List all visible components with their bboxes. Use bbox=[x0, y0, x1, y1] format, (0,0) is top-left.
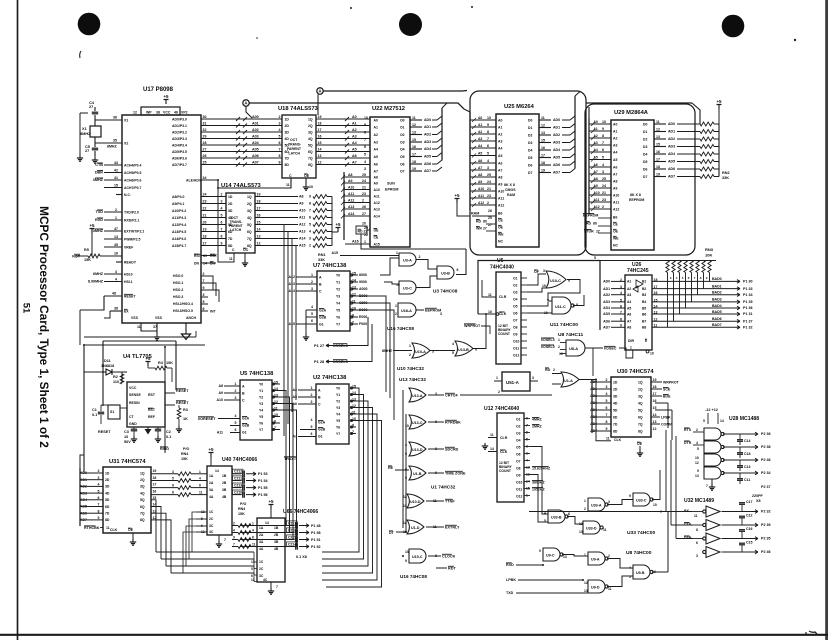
wire U25 address pin bbox=[470, 190, 496, 192]
binder hole dot 1 bbox=[78, 13, 101, 36]
svg-text:A12: A12 bbox=[374, 201, 380, 205]
svg-text:BUE: BUE bbox=[663, 395, 671, 399]
gate U9-B bbox=[633, 565, 650, 579]
svg-text:RST: RST bbox=[148, 393, 156, 397]
svg-text:OE: OE bbox=[128, 528, 134, 532]
svg-text:A06: A06 bbox=[252, 154, 259, 158]
svg-text:U16 74HC08: U16 74HC08 bbox=[400, 574, 427, 579]
IC U29 M2864A bbox=[611, 120, 654, 250]
svg-text:35: 35 bbox=[113, 139, 117, 143]
svg-text:Y6: Y6 bbox=[336, 315, 340, 319]
svg-text:HSI.0: HSI.0 bbox=[124, 272, 133, 276]
svg-text:1: 1 bbox=[311, 386, 313, 390]
svg-text:X1: X1 bbox=[124, 119, 128, 123]
svg-text:U8 74HC11: U8 74HC11 bbox=[558, 332, 583, 338]
wire P2 arrow (U32) bbox=[752, 510, 758, 514]
svg-text:Y5: Y5 bbox=[336, 419, 340, 423]
wire U30 input bbox=[598, 416, 611, 418]
wire RN1 common bbox=[331, 225, 333, 233]
wire U18 output bbox=[316, 157, 370, 159]
svg-text:AD2: AD2 bbox=[603, 293, 610, 297]
wire U7 Y0 feed to U3-A bbox=[358, 258, 399, 275]
svg-text:10: 10 bbox=[364, 116, 368, 120]
svg-text:HSI.3/HSO.5: HSI.3/HSO.5 bbox=[173, 309, 193, 313]
svg-text:A8: A8 bbox=[498, 175, 502, 179]
svg-text:P1 34: P1 34 bbox=[743, 293, 754, 297]
svg-text:5: 5 bbox=[405, 452, 407, 456]
wire U29 address pin bbox=[589, 137, 611, 139]
svg-text:A12: A12 bbox=[613, 207, 619, 211]
svg-text:LATCH: LATCH bbox=[289, 152, 301, 156]
gate U15-C bbox=[409, 549, 426, 563]
svg-text:C14: C14 bbox=[744, 439, 751, 443]
svg-text:DT: DT bbox=[389, 531, 395, 535]
svg-text:P1 52: P1 52 bbox=[311, 545, 321, 549]
IC U18 74ALS573 bbox=[282, 115, 316, 178]
wire U31 low byte drop bbox=[151, 513, 166, 566]
svg-text:4: 4 bbox=[405, 443, 407, 447]
wire A bus row bbox=[201, 245, 226, 247]
wire U17 bottom to U4 rail bbox=[84, 344, 205, 346]
svg-text:42: 42 bbox=[114, 169, 118, 173]
svg-text:VREF: VREF bbox=[124, 245, 133, 249]
svg-text:6: 6 bbox=[311, 432, 313, 436]
svg-text:9: 9 bbox=[233, 536, 235, 540]
wire U2 select input bbox=[298, 389, 316, 391]
svg-text:9: 9 bbox=[309, 195, 311, 199]
svg-text:A00: A00 bbox=[252, 115, 259, 119]
svg-text:B4: B4 bbox=[642, 300, 646, 304]
wire P2 arrow (U28) bbox=[752, 455, 758, 459]
svg-text:6Q: 6Q bbox=[308, 150, 313, 154]
svg-text:TRANS-: TRANS- bbox=[288, 143, 302, 147]
svg-text:2B: 2B bbox=[222, 481, 227, 485]
wire U26 B output to BAD row bbox=[661, 288, 663, 290]
wire A15 to U3-A bbox=[340, 255, 399, 257]
wire A bus row bbox=[201, 231, 226, 233]
net node circle A2 bbox=[317, 88, 323, 94]
svg-text:2D: 2D bbox=[105, 478, 110, 482]
svg-text:AD3: AD3 bbox=[424, 140, 431, 144]
svg-text:O2: O2 bbox=[513, 283, 518, 287]
svg-text:AD3: AD3 bbox=[668, 145, 675, 149]
wire Y0 to U3-A bbox=[380, 258, 399, 275]
svg-text:1C: 1C bbox=[259, 560, 264, 564]
svg-text:1: 1 bbox=[396, 251, 398, 255]
wire U9-A to U9-B bbox=[607, 559, 633, 569]
svg-text:AD4: AD4 bbox=[668, 152, 675, 156]
svg-text:HSI.1: HSI.1 bbox=[124, 280, 133, 284]
svg-text:2A: 2A bbox=[209, 481, 214, 485]
svg-text:6MHZ: 6MHZ bbox=[93, 272, 104, 276]
svg-text:U25 M6264: U25 M6264 bbox=[504, 104, 535, 110]
wire U14 output row bbox=[255, 231, 298, 233]
svg-text:2Q: 2Q bbox=[638, 387, 643, 391]
svg-text:3: 3 bbox=[311, 400, 313, 404]
svg-text:G1: G1 bbox=[318, 434, 323, 438]
svg-text:4D: 4D bbox=[613, 401, 618, 405]
wire U5 Y route down bbox=[240, 404, 293, 540]
wire U22 high address pin bbox=[344, 208, 370, 210]
svg-text:B1: B1 bbox=[642, 280, 646, 284]
svg-text:2: 2 bbox=[115, 208, 117, 212]
svg-text:A10: A10 bbox=[613, 193, 619, 197]
svg-text:O2: O2 bbox=[516, 425, 521, 429]
svg-text:A4: A4 bbox=[498, 146, 502, 150]
svg-text:A11: A11 bbox=[299, 216, 305, 220]
svg-text:4Q: 4Q bbox=[140, 491, 145, 495]
svg-text:11: 11 bbox=[137, 325, 141, 329]
svg-text:A7: A7 bbox=[352, 161, 357, 165]
svg-text:CE: CE bbox=[374, 236, 379, 240]
svg-text:4: 4 bbox=[364, 160, 366, 164]
wire crystal to U17 pins bbox=[95, 119, 122, 121]
wire U26 left pin bbox=[611, 326, 625, 328]
wire A bus row bbox=[201, 203, 226, 205]
svg-text:COMM: COMM bbox=[661, 423, 672, 427]
wire RD box down along U22 bottom bbox=[361, 234, 466, 249]
wire P2 arrow (U28) bbox=[752, 429, 758, 433]
svg-text:1D: 1D bbox=[228, 195, 233, 199]
wire BAD row arrow bbox=[732, 280, 740, 284]
svg-text:Y2: Y2 bbox=[259, 395, 263, 399]
svg-text:B6: B6 bbox=[613, 215, 617, 219]
svg-text:HSO.1: HSO.1 bbox=[173, 281, 183, 285]
inverter U32 receiver 3 bbox=[706, 533, 720, 544]
svg-text:Y7: Y7 bbox=[336, 322, 340, 326]
svg-text:8000: 8000 bbox=[359, 273, 367, 277]
svg-text:P1 32: P1 32 bbox=[743, 326, 753, 330]
svg-text:U10-C: U10-C bbox=[550, 279, 561, 283]
svg-text:3MHZ: 3MHZ bbox=[93, 178, 104, 182]
svg-text:7Q: 7Q bbox=[247, 237, 252, 241]
svg-text:7Q: 7Q bbox=[638, 422, 643, 426]
svg-text:AD1: AD1 bbox=[668, 130, 675, 134]
svg-text:U10 74HC32: U10 74HC32 bbox=[397, 366, 424, 371]
svg-text:5: 5 bbox=[279, 135, 281, 139]
svg-text:A3: A3 bbox=[613, 143, 617, 147]
capacitors C14 C18 C13 C11 bbox=[739, 434, 741, 439]
svg-text:U16-A: U16-A bbox=[401, 309, 412, 313]
wire U14 output row bbox=[255, 217, 298, 219]
gate feed vertical wires bbox=[402, 390, 404, 528]
svg-text:C1: C1 bbox=[92, 408, 97, 412]
svg-text:AD5: AD5 bbox=[553, 156, 560, 160]
svg-text:GND: GND bbox=[129, 422, 137, 426]
wire U22 data to bus ramp bbox=[432, 119, 437, 121]
svg-text:O9: O9 bbox=[513, 332, 518, 336]
svg-text:2: 2 bbox=[606, 378, 608, 382]
svg-text:OE: OE bbox=[374, 229, 380, 233]
svg-text:26: 26 bbox=[488, 209, 492, 213]
wire U22 high address pin bbox=[344, 182, 370, 184]
svg-text:D11: D11 bbox=[104, 359, 111, 363]
wire U25 data bus ramp bbox=[562, 164, 570, 166]
wire U31 Q to RN4 series resistor bbox=[151, 487, 178, 489]
wire mesh row to U66 control bbox=[171, 572, 254, 574]
svg-text:Y3: Y3 bbox=[336, 406, 340, 410]
svg-text:A04: A04 bbox=[252, 141, 260, 145]
wire cap arrow to P1 (U66) bbox=[303, 545, 309, 549]
svg-text:7: 7 bbox=[620, 310, 622, 314]
svg-text:U9-B: U9-B bbox=[636, 571, 645, 575]
svg-text:AD2: AD2 bbox=[424, 133, 431, 137]
svg-text:ACH6/P0.6: ACH6/P0.6 bbox=[124, 178, 141, 182]
U17 HSI input pins bbox=[104, 273, 122, 275]
AD bus vertical rail right of U25 bbox=[574, 96, 576, 169]
svg-text:A12: A12 bbox=[498, 203, 504, 207]
svg-text:13: 13 bbox=[579, 530, 583, 534]
svg-text:2MHZ: 2MHZ bbox=[532, 425, 542, 429]
wire node A1 bend to U17 bus bbox=[246, 106, 252, 118]
svg-text:Y5: Y5 bbox=[336, 308, 340, 312]
wire U5 select input bbox=[224, 392, 240, 394]
svg-text:B6: B6 bbox=[642, 312, 646, 316]
svg-text:2: 2 bbox=[584, 507, 586, 511]
ground below U14 bbox=[244, 260, 246, 263]
wire U22 data to bus ramp bbox=[432, 170, 437, 172]
svg-text:3MHZ: 3MHZ bbox=[93, 229, 104, 233]
svg-text:A1: A1 bbox=[352, 122, 357, 126]
svg-text:A0: A0 bbox=[352, 115, 357, 119]
svg-text:O0: O0 bbox=[400, 118, 405, 122]
resistor RN3 leg bbox=[690, 261, 693, 273]
svg-text:AD7: AD7 bbox=[603, 326, 610, 330]
gate U16-A bbox=[398, 303, 416, 317]
svg-text:16: 16 bbox=[153, 489, 157, 493]
svg-text:A10: A10 bbox=[299, 209, 306, 213]
resistor RN3 leg bbox=[702, 261, 705, 273]
wire U29 data to RN2 bbox=[677, 146, 700, 148]
svg-text:50V: 50V bbox=[124, 440, 131, 444]
svg-text:7D: 7D bbox=[285, 156, 290, 160]
svg-text:X8: X8 bbox=[756, 499, 760, 503]
svg-text:O3: O3 bbox=[400, 140, 405, 144]
wire U18 output bbox=[316, 164, 370, 166]
svg-text:18: 18 bbox=[153, 476, 157, 480]
wire U25 address pin bbox=[470, 204, 496, 206]
wire mesh U31 to U66 row 1 bbox=[151, 500, 232, 552]
wire Y1 to U3-C bbox=[384, 282, 399, 284]
wire A bus row bbox=[201, 217, 226, 219]
svg-text:AD3: AD3 bbox=[603, 300, 610, 304]
gate U13-D bbox=[409, 442, 426, 456]
svg-text:1Q: 1Q bbox=[638, 380, 643, 384]
svg-text:1D: 1D bbox=[285, 117, 290, 121]
svg-text:EEPROM: EEPROM bbox=[629, 198, 644, 202]
svg-text:4: 4 bbox=[452, 342, 454, 346]
svg-text:RTHCBK: RTHCBK bbox=[84, 526, 100, 530]
svg-text:8D: 8D bbox=[285, 163, 290, 167]
U17 EA pin bbox=[110, 310, 122, 312]
svg-text:2A: 2A bbox=[259, 533, 264, 537]
svg-text:G2B: G2B bbox=[242, 423, 250, 427]
svg-text:B: B bbox=[242, 391, 245, 395]
svg-text:3: 3 bbox=[608, 500, 610, 504]
svg-text:2: 2 bbox=[311, 393, 313, 397]
wire U33-A to U33-C bbox=[607, 500, 633, 505]
svg-text:AD5: AD5 bbox=[603, 312, 610, 316]
AD bus rail left of U31 bbox=[79, 468, 81, 526]
svg-text:1: 1 bbox=[252, 522, 254, 526]
svg-text:U12 74HC4040: U12 74HC4040 bbox=[484, 406, 519, 412]
wire RN1 common bbox=[331, 232, 333, 246]
svg-text:9: 9 bbox=[629, 494, 631, 498]
svg-text:D7: D7 bbox=[528, 171, 532, 175]
U28 outputs caps and P2 labels bbox=[723, 433, 752, 435]
svg-text:B6: B6 bbox=[498, 211, 502, 215]
wire P2 arrow (U32) bbox=[752, 537, 758, 541]
wire U18 output bbox=[316, 125, 370, 127]
wire RN3 leg down to BAD row bbox=[697, 273, 699, 295]
svg-text:CLOCK: CLOCK bbox=[442, 555, 456, 559]
svg-text:A9: A9 bbox=[218, 391, 223, 395]
svg-text:1: 1 bbox=[630, 345, 632, 349]
svg-text:RDT: RDT bbox=[448, 567, 456, 571]
svg-text:+5: +5 bbox=[716, 99, 722, 104]
svg-text:OC: OC bbox=[243, 248, 249, 252]
svg-text:A15: A15 bbox=[299, 244, 306, 248]
svg-text:O4: O4 bbox=[400, 147, 405, 151]
svg-text:P1 54: P1 54 bbox=[258, 479, 269, 483]
U1-D output net EXTRLY bbox=[426, 526, 444, 528]
svg-text:10K: 10K bbox=[705, 253, 712, 258]
svg-text:CE: CE bbox=[613, 222, 618, 226]
svg-text:PARENT: PARENT bbox=[287, 147, 302, 151]
svg-text:14: 14 bbox=[215, 469, 219, 473]
wire U31 input bbox=[88, 492, 103, 494]
svg-text:43: 43 bbox=[114, 161, 118, 165]
svg-text:HSO.2: HSO.2 bbox=[173, 288, 183, 292]
svg-text:I/OSEC: I/OSEC bbox=[604, 347, 617, 351]
svg-text:7: 7 bbox=[606, 413, 608, 417]
wire U29 address pin bbox=[589, 187, 611, 189]
svg-text:AD3/P3.3: AD3/P3.3 bbox=[172, 137, 187, 141]
wire BAD row bbox=[652, 288, 732, 290]
svg-text:D5: D5 bbox=[643, 160, 647, 164]
wire RN1 common bbox=[331, 211, 333, 233]
svg-text:P2 38: P2 38 bbox=[761, 445, 771, 449]
resistor RN3 leg bbox=[696, 261, 699, 273]
svg-text:8: 8 bbox=[606, 420, 608, 424]
svg-text:VSS: VSS bbox=[131, 316, 139, 320]
wire U7 select input bbox=[296, 283, 317, 285]
svg-text:16: 16 bbox=[114, 252, 118, 256]
svg-text:U3-B: U3-B bbox=[441, 272, 450, 276]
wire U25 data bus ramp bbox=[562, 157, 570, 159]
wire U31 input bbox=[88, 499, 103, 501]
svg-text:N.C.: N.C. bbox=[124, 193, 131, 197]
svg-text:WE: WE bbox=[613, 236, 619, 240]
wire BAD row arrow bbox=[732, 306, 740, 310]
svg-text:A15/P4.7: A15/P4.7 bbox=[172, 244, 186, 248]
svg-text:B7: B7 bbox=[642, 320, 646, 324]
svg-text:R2: R2 bbox=[113, 375, 118, 379]
svg-text:CLK: CLK bbox=[110, 528, 118, 532]
svg-text:BAD0: BAD0 bbox=[712, 277, 722, 281]
svg-text:2: 2 bbox=[419, 255, 421, 259]
svg-text:4Q: 4Q bbox=[308, 137, 313, 141]
svg-text:O12: O12 bbox=[516, 495, 522, 499]
svg-text:5: 5 bbox=[452, 351, 454, 355]
svg-text:BAD1: BAD1 bbox=[712, 284, 722, 288]
svg-text:HSI.2/HSO.4: HSI.2/HSO.4 bbox=[173, 302, 193, 306]
wire S1 to U4 bbox=[101, 404, 108, 406]
svg-text:3: 3 bbox=[235, 396, 237, 400]
wire U26 B output to BAD row bbox=[661, 280, 663, 282]
svg-text:CLK: CLK bbox=[500, 450, 508, 454]
svg-text:A02: A02 bbox=[252, 128, 259, 132]
svg-text:CTS: CTS bbox=[684, 523, 692, 527]
svg-text:10: 10 bbox=[405, 424, 409, 428]
svg-text:4A: 4A bbox=[209, 495, 214, 499]
svg-text:A13/P4.5: A13/P4.5 bbox=[172, 230, 186, 234]
svg-text:8: 8 bbox=[252, 536, 254, 540]
gate U28 driver 4 bbox=[704, 467, 721, 479]
svg-text:WRPROT: WRPROT bbox=[663, 381, 680, 385]
svg-text:AD0: AD0 bbox=[603, 280, 610, 284]
wire RN1 common bbox=[331, 197, 333, 233]
wire RN1 common bbox=[331, 232, 333, 239]
svg-text:1: 1 bbox=[311, 273, 313, 277]
svg-text:5: 5 bbox=[697, 447, 699, 451]
svg-text:1C: 1C bbox=[209, 510, 214, 514]
wire from top AD bus down right side bbox=[555, 180, 557, 372]
svg-text:1: 1 bbox=[395, 304, 397, 308]
svg-text:Y3: Y3 bbox=[336, 294, 340, 298]
wire U40 control drop bbox=[189, 519, 196, 559]
svg-text:11: 11 bbox=[608, 587, 612, 591]
wire U25 address pin bbox=[470, 133, 496, 135]
svg-text:TXD: TXD bbox=[506, 591, 514, 595]
svg-text:11: 11 bbox=[490, 433, 494, 437]
wire U40 control drop bbox=[186, 526, 196, 566]
svg-text:Y4: Y4 bbox=[259, 408, 263, 412]
svg-text:220PF: 220PF bbox=[752, 494, 764, 498]
svg-text:8: 8 bbox=[620, 318, 622, 322]
inverter U32 receiver 1 bbox=[706, 506, 720, 517]
svg-text:A10: A10 bbox=[216, 398, 223, 402]
svg-text:11: 11 bbox=[199, 491, 203, 495]
svg-text:WP: WP bbox=[146, 111, 152, 115]
resistor network RN2 33K bbox=[700, 122, 714, 126]
svg-text:1Q: 1Q bbox=[308, 117, 313, 121]
svg-text:BAD4: BAD4 bbox=[712, 304, 722, 308]
A8-A15 vertical bus lines down from U14 outputs bbox=[283, 225, 285, 291]
svg-text:D1: D1 bbox=[643, 130, 647, 134]
svg-text:7Q: 7Q bbox=[140, 512, 145, 516]
svg-text:RD: RD bbox=[358, 229, 364, 233]
svg-text:10: 10 bbox=[309, 185, 313, 189]
gate U9-C bbox=[543, 548, 560, 561]
svg-text:P1 58: P1 58 bbox=[311, 531, 321, 535]
wire U30 input bbox=[598, 423, 611, 425]
svg-text:8Q: 8Q bbox=[308, 163, 313, 167]
svg-text:OCT: OCT bbox=[290, 138, 298, 142]
ground left of U12 bbox=[484, 443, 486, 446]
svg-text:RESET: RESET bbox=[176, 401, 189, 405]
IC U25 M6264 bbox=[496, 114, 539, 247]
svg-text:D4: D4 bbox=[528, 148, 532, 152]
svg-text:P2 46: P2 46 bbox=[761, 458, 771, 462]
wire AD tick U31 bbox=[80, 519, 88, 521]
wire U22 data to bus ramp bbox=[432, 163, 437, 165]
svg-text:AD1: AD1 bbox=[553, 126, 560, 130]
svg-text:4: 4 bbox=[311, 418, 313, 422]
svg-text:EPROM: EPROM bbox=[385, 188, 398, 192]
svg-text:33K: 33K bbox=[318, 258, 325, 262]
svg-text:13: 13 bbox=[563, 555, 567, 559]
